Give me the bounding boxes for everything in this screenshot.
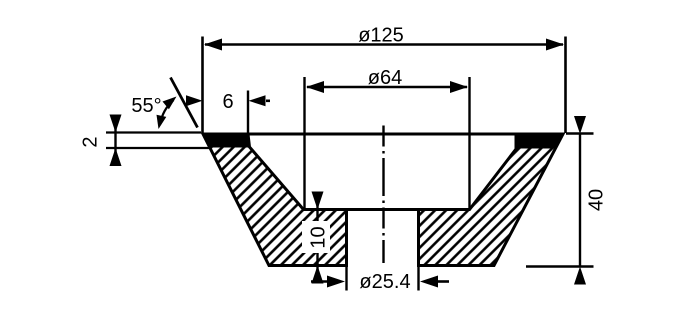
dim 2 vertical with outside arrows xyxy=(110,115,122,167)
svg-text:2: 2 xyxy=(80,136,102,147)
svg-text:10: 10 xyxy=(308,226,330,248)
dim line diameter 125 xyxy=(204,39,564,51)
abrasive layer right (solid black) xyxy=(516,134,564,149)
dim 6 left arrow (outside, pointing right) xyxy=(186,95,203,106)
svg-text:ø25.4: ø25.4 xyxy=(359,271,410,293)
svg-text:40: 40 xyxy=(586,189,608,211)
dim 2 top line xyxy=(106,131,201,133)
dim 6 extension line xyxy=(247,91,249,134)
wheel left section (hatched) xyxy=(203,134,347,266)
dia25.4 right arrow with tail xyxy=(420,276,449,288)
arc arrow lower xyxy=(157,115,167,129)
centerline (dash-dot) xyxy=(382,126,384,264)
svg-text:6: 6 xyxy=(222,91,233,113)
arc arrow upper xyxy=(163,97,177,110)
dim 2 bottom line xyxy=(106,147,211,149)
extension line right of dia125 xyxy=(564,37,567,134)
extension line left of dia125 xyxy=(201,37,204,134)
dim 40 bottom extension line xyxy=(526,265,594,267)
dia25.4 extension line right xyxy=(417,267,419,291)
dim 40 vertical with outside arrows xyxy=(574,116,586,285)
svg-text:55°: 55° xyxy=(131,95,161,117)
55 degree slope line xyxy=(171,78,198,128)
recess bottom edge across bore xyxy=(304,208,470,211)
dim 6 right arrow (outside, pointing left) xyxy=(249,95,271,106)
svg-text:ø64: ø64 xyxy=(368,67,402,89)
abrasive layer left (solid black) xyxy=(203,133,250,148)
wheel right section (hatched) xyxy=(419,134,564,266)
dim 10 vertical line with outside arrows xyxy=(312,192,324,284)
dim 40 top extension line xyxy=(566,132,594,134)
55 degree arc xyxy=(160,100,174,125)
halo for label 10 xyxy=(302,221,330,253)
extension line right of dia64 xyxy=(468,77,470,209)
top face line xyxy=(203,133,563,136)
svg-text:ø125: ø125 xyxy=(358,25,404,47)
dia25.4 left arrow with tail xyxy=(311,276,345,288)
extension line left of dia64 xyxy=(303,77,305,209)
dim line diameter 64 xyxy=(306,81,468,93)
dia25.4 extension line left xyxy=(345,267,347,291)
